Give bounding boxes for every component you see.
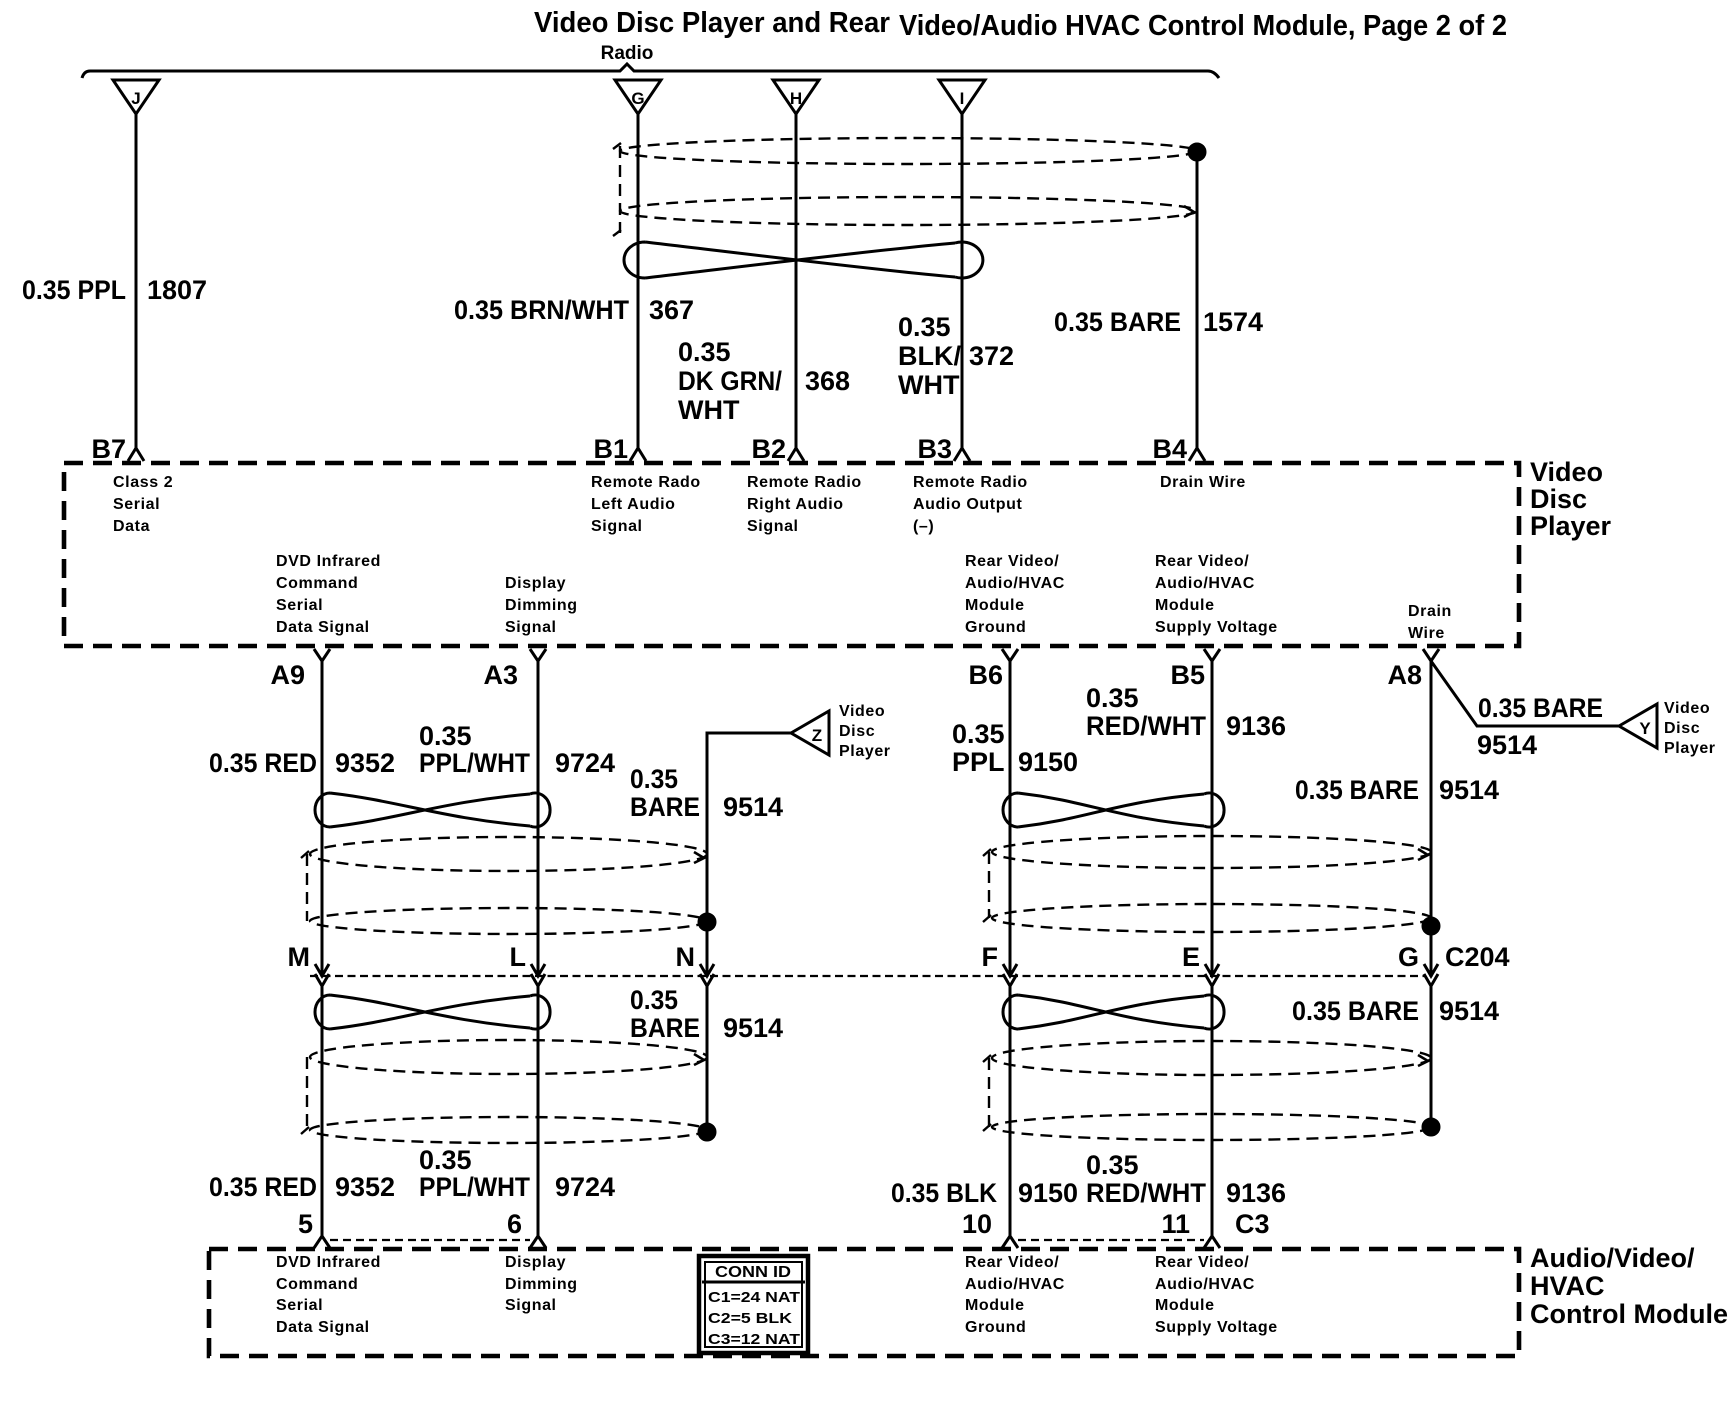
svg-text:0.35: 0.35 — [419, 721, 472, 751]
shield around 10/11 pair lower — [983, 1041, 1431, 1140]
Audio/Video/HVAC Control Module box — [209, 1249, 1519, 1356]
connector triangle Z (Video Disc Player) — [791, 711, 829, 755]
label wire 367 (0.35 BRN/WHT) — [454, 295, 694, 325]
svg-text:0.35: 0.35 — [1086, 683, 1139, 713]
label wire 9514 below C204 left (0.35 BARE) — [630, 985, 783, 1043]
svg-text:Right Audio: Right Audio — [747, 496, 844, 513]
pin function: Rear Video/Audio/HVAC Module Ground — [965, 553, 1065, 636]
svg-text:Radio: Radio — [601, 43, 654, 64]
svg-text:H: H — [790, 89, 802, 108]
svg-text:0.35 BARE: 0.35 BARE — [1295, 775, 1419, 805]
svg-text:0.35: 0.35 — [678, 337, 731, 367]
svg-text:BARE: BARE — [630, 792, 700, 822]
svg-text:Audio/HVAC: Audio/HVAC — [1155, 575, 1255, 592]
svg-text:DK GRN/: DK GRN/ — [678, 366, 782, 396]
svg-text:Command: Command — [276, 1276, 358, 1293]
svg-text:Signal: Signal — [591, 518, 643, 535]
C204 inline connector dashed line — [310, 975, 1425, 977]
svg-text:0.35 PPL: 0.35 PPL — [22, 275, 126, 305]
svg-text:B1: B1 — [593, 434, 628, 464]
svg-text:RED/WHT: RED/WHT — [1086, 1178, 1206, 1208]
svg-text:5: 5 — [298, 1209, 313, 1239]
svg-text:Supply Voltage: Supply Voltage — [1155, 1319, 1278, 1336]
pin B1 — [593, 434, 646, 464]
label wire 9352 (0.35 RED) — [209, 748, 395, 778]
pin function: Rear Video/Audio/HVAC Module Ground (module) — [965, 1254, 1065, 1336]
svg-text:Display: Display — [505, 1254, 566, 1271]
shield continuation between pins 10 and 11 — [1018, 1239, 1204, 1241]
twisted pair symbol 10/11 lower — [1003, 995, 1224, 1029]
junction dot shield to A8 drain — [1423, 918, 1439, 934]
svg-text:HVAC: HVAC — [1530, 1271, 1605, 1301]
svg-text:Audio/HVAC: Audio/HVAC — [965, 575, 1065, 592]
svg-text:B3: B3 — [917, 434, 952, 464]
label wire 9514 at Y (0.35 BARE) — [1477, 693, 1603, 760]
svg-text:B7: B7 — [91, 434, 126, 464]
Y triangle label Video Disc Player — [1664, 700, 1716, 757]
wire E-11 — [1211, 986, 1214, 1237]
svg-text:9150: 9150 — [1018, 747, 1078, 777]
wire drain B4 — [1196, 152, 1199, 448]
svg-text:372: 372 — [969, 341, 1014, 371]
label wire 368 (0.35 DK GRN/WHT) — [678, 337, 850, 425]
pin function: Rear Video/Audio/HVAC Module Supply Voltage — [1155, 553, 1278, 636]
wire G lower — [1430, 986, 1433, 1121]
shield continuation between pins 5 and 6 — [330, 1239, 530, 1241]
Video Disc Player module box — [64, 463, 1519, 646]
pin B2 — [751, 434, 804, 464]
svg-text:Dimming: Dimming — [505, 1276, 578, 1293]
shield around A9/A3 pair upper — [301, 837, 707, 934]
label wire 9136 lower (0.35 RED/WHT) — [1086, 1150, 1286, 1208]
pin function: Display Dimming Signal — [505, 575, 578, 636]
svg-text:0.35 BLK: 0.35 BLK — [891, 1178, 997, 1208]
svg-text:DVD Infrared: DVD Infrared — [276, 553, 381, 570]
pin function: Display Dimming Signal (module) — [505, 1254, 578, 1314]
junction dot shield to N wire lower — [699, 1124, 715, 1140]
svg-text:Video Disc Player and Rear: Video Disc Player and Rear — [534, 7, 890, 39]
svg-text:11: 11 — [1161, 1209, 1190, 1239]
label wire 9514 at A8 (0.35 BARE) — [1295, 775, 1499, 805]
pin function: Rear Video/Audio/HVAC Module Supply Voltage (module) — [1155, 1254, 1278, 1336]
svg-text:0.35: 0.35 — [952, 719, 1005, 749]
wire F-10 — [1009, 986, 1012, 1237]
svg-text:Video: Video — [1664, 700, 1710, 717]
label wire 9150 lower (0.35 BLK) — [891, 1178, 1078, 1208]
svg-text:C3=12 NAT: C3=12 NAT — [708, 1331, 800, 1348]
wire A3-L — [537, 661, 540, 977]
connector triangle G (to Radio) — [615, 80, 661, 114]
svg-text:Left Audio: Left Audio — [591, 496, 676, 513]
svg-text:C2=5 BLK: C2=5 BLK — [708, 1310, 792, 1327]
connector triangle H (to Radio) — [773, 80, 819, 114]
wire A8 to Y triangle — [1431, 661, 1619, 726]
shield around B6/B5 pair upper — [983, 836, 1431, 932]
pin function: DVD Infrared Command Serial Data Signal — [276, 553, 381, 636]
svg-text:1574: 1574 — [1203, 307, 1263, 337]
twisted pair symbol 5/6 lower — [315, 995, 550, 1029]
svg-text:6: 6 — [507, 1209, 522, 1239]
svg-text:Data Signal: Data Signal — [276, 1319, 370, 1336]
label wire 9724 (0.35 PPL/WHT) — [419, 721, 615, 778]
wire L-6 — [537, 986, 540, 1237]
svg-text:WHT: WHT — [678, 395, 740, 425]
svg-text:Wire: Wire — [1408, 625, 1445, 642]
svg-text:9136: 9136 — [1226, 711, 1286, 741]
svg-text:Data: Data — [113, 518, 150, 535]
wire Z triangle to N — [707, 733, 791, 977]
pin function: Drain Wire — [1160, 474, 1246, 491]
twisted pair symbol B6/B5 upper — [1003, 793, 1224, 827]
pin function: Remote Radio Right Audio Signal — [747, 474, 862, 535]
svg-text:B5: B5 — [1170, 660, 1205, 690]
label wire 9150 (0.35 PPL) — [952, 719, 1078, 777]
svg-text:0.35 BARE: 0.35 BARE — [1478, 693, 1603, 723]
svg-text:B6: B6 — [968, 660, 1003, 690]
svg-text:Disc: Disc — [1530, 484, 1587, 514]
svg-text:0.35: 0.35 — [898, 312, 951, 342]
svg-text:9514: 9514 — [1439, 996, 1499, 1026]
svg-text:Y: Y — [1639, 719, 1651, 738]
label wire 9514 at N (0.35 BARE) — [630, 764, 783, 822]
svg-text:DVD Infrared: DVD Infrared — [276, 1254, 381, 1271]
svg-text:Rear Video/: Rear Video/ — [1155, 553, 1249, 570]
svg-text:9352: 9352 — [335, 1172, 395, 1202]
wire J-B7 — [135, 114, 138, 448]
svg-text:Remote Radio: Remote Radio — [913, 474, 1028, 491]
label wire 9136 (0.35 RED/WHT) — [1086, 683, 1286, 741]
svg-text:M: M — [288, 942, 311, 972]
svg-text:C3: C3 — [1235, 1209, 1270, 1239]
svg-text:Video: Video — [1530, 457, 1603, 487]
wire N lower — [706, 986, 709, 1126]
svg-text:0.35 BRN/WHT: 0.35 BRN/WHT — [454, 295, 629, 325]
wire I-B3 — [961, 114, 964, 448]
svg-text:Video: Video — [839, 703, 885, 720]
svg-text:Rear Video/: Rear Video/ — [965, 1254, 1059, 1271]
svg-text:N: N — [676, 942, 696, 972]
svg-text:Data Signal: Data Signal — [276, 619, 370, 636]
label wire 9352 lower (0.35 RED) — [209, 1172, 395, 1202]
twisted pair symbol A9/A3 upper — [315, 793, 550, 827]
pin B7 — [91, 434, 144, 464]
pin B3 — [917, 434, 970, 464]
wire M-5 — [321, 986, 324, 1237]
pin A8 — [1387, 649, 1439, 690]
svg-text:C204: C204 — [1445, 942, 1510, 972]
pin function: DVD Infrared Command Serial Data Signal (module) — [276, 1254, 381, 1336]
svg-text:CONN ID: CONN ID — [715, 1264, 791, 1281]
Video Disc Player box label — [1530, 457, 1612, 541]
svg-text:9514: 9514 — [723, 1013, 783, 1043]
pin function: Class 2 Serial Data — [113, 474, 173, 535]
svg-text:Audio/Video/: Audio/Video/ — [1530, 1243, 1695, 1273]
junction dot shield to N wire — [699, 914, 715, 930]
svg-text:Module: Module — [965, 1297, 1025, 1314]
shield around 5/6 pair lower — [301, 1040, 707, 1143]
svg-text:BLK/: BLK/ — [898, 341, 961, 371]
svg-text:1807: 1807 — [147, 275, 207, 305]
label wire 9724 lower (0.35 PPL/WHT) — [419, 1145, 615, 1202]
svg-text:Display: Display — [505, 575, 566, 592]
svg-text:BARE: BARE — [630, 1013, 700, 1043]
svg-text:Rear Video/: Rear Video/ — [965, 553, 1059, 570]
pin B4 — [1152, 434, 1205, 464]
svg-text:9724: 9724 — [555, 1172, 615, 1202]
svg-text:9352: 9352 — [335, 748, 395, 778]
svg-text:Remote Radio: Remote Radio — [747, 474, 862, 491]
Z triangle label Video Disc Player — [839, 703, 891, 760]
svg-text:9514: 9514 — [1439, 775, 1499, 805]
svg-text:Ground: Ground — [965, 619, 1026, 636]
svg-text:RED/WHT: RED/WHT — [1086, 711, 1206, 741]
svg-text:Dimming: Dimming — [505, 597, 578, 614]
svg-text:0.35 BARE: 0.35 BARE — [1292, 996, 1419, 1026]
wire H-B2 — [795, 114, 798, 448]
svg-text:9724: 9724 — [555, 748, 615, 778]
svg-text:(–): (–) — [913, 518, 934, 535]
node F at C204 — [982, 942, 1018, 986]
pin function: Drain Wire (A8) — [1408, 603, 1452, 642]
svg-text:Audio/HVAC: Audio/HVAC — [965, 1276, 1065, 1293]
svg-text:Serial: Serial — [276, 597, 323, 614]
svg-text:Player: Player — [839, 743, 891, 760]
pin A3 — [483, 649, 546, 690]
svg-text:C1=24 NAT: C1=24 NAT — [708, 1289, 800, 1306]
svg-text:368: 368 — [805, 366, 850, 396]
svg-text:Signal: Signal — [747, 518, 799, 535]
pin 11 — [1161, 1209, 1220, 1248]
svg-text:Signal: Signal — [505, 619, 557, 636]
svg-text:L: L — [510, 942, 527, 972]
svg-text:367: 367 — [649, 295, 694, 325]
svg-text:9150: 9150 — [1018, 1178, 1078, 1208]
connector triangle Y (Video Disc Player) — [1619, 704, 1657, 748]
svg-text:10: 10 — [962, 1209, 992, 1239]
pin B6 — [968, 649, 1018, 690]
connector triangle J (to Radio) — [113, 80, 159, 114]
pin 5 — [298, 1209, 330, 1248]
label wire 9514 below C204 right (0.35 BARE) — [1292, 996, 1499, 1026]
svg-text:Control Module: Control Module — [1530, 1299, 1728, 1329]
svg-text:Disc: Disc — [839, 723, 875, 740]
svg-text:A9: A9 — [270, 660, 305, 690]
wire A8 drain vertical — [1430, 661, 1433, 977]
node E at C204 — [1182, 942, 1219, 986]
svg-text:Rear Video/: Rear Video/ — [1155, 1254, 1249, 1271]
svg-text:0.35: 0.35 — [419, 1145, 472, 1175]
svg-text:Video/Audio HVAC Control Modul: Video/Audio HVAC Control Module, Page 2 … — [899, 10, 1507, 42]
svg-text:Module: Module — [965, 597, 1025, 614]
svg-text:Module: Module — [1155, 1297, 1215, 1314]
pin A9 — [270, 649, 330, 690]
pin B5 — [1170, 649, 1220, 690]
svg-text:Remote Rado: Remote Rado — [591, 474, 701, 491]
Audio/Video/HVAC Control Module box label — [1530, 1243, 1728, 1329]
wire B6-F — [1009, 661, 1012, 977]
title — [534, 7, 1507, 42]
svg-text:9136: 9136 — [1226, 1178, 1286, 1208]
pin 6 — [507, 1209, 546, 1248]
svg-text:A3: A3 — [483, 660, 518, 690]
svg-text:B2: B2 — [751, 434, 786, 464]
connector triangle I (to Radio) — [939, 80, 985, 114]
svg-text:Command: Command — [276, 575, 358, 592]
svg-text:Module: Module — [1155, 597, 1215, 614]
pin function: Remote Radio Audio Output (-) — [913, 474, 1028, 535]
svg-text:Audio Output: Audio Output — [913, 496, 1022, 513]
svg-text:B4: B4 — [1152, 434, 1187, 464]
svg-text:Player: Player — [1664, 740, 1716, 757]
svg-text:0.35 RED: 0.35 RED — [209, 1172, 317, 1202]
svg-text:0.35: 0.35 — [1086, 1150, 1139, 1180]
svg-text:Z: Z — [812, 726, 822, 745]
svg-text:0.35: 0.35 — [630, 985, 678, 1015]
svg-text:9514: 9514 — [723, 792, 783, 822]
svg-text:Serial: Serial — [113, 496, 160, 513]
svg-text:I: I — [960, 89, 965, 108]
svg-text:0.35: 0.35 — [630, 764, 678, 794]
CONN ID table — [699, 1256, 808, 1353]
label wire 372 (0.35 BLK/WHT) — [898, 312, 1014, 400]
node G at C204 — [1398, 942, 1438, 986]
svg-text:0.35 RED: 0.35 RED — [209, 748, 317, 778]
label wire 1807 (0.35 PPL) — [22, 275, 207, 305]
junction dot shield to G drain lower — [1423, 1119, 1439, 1135]
node N at C204 — [676, 942, 715, 986]
svg-text:WHT: WHT — [898, 370, 960, 400]
Radio bus bracket — [82, 64, 1219, 78]
svg-text:A8: A8 — [1387, 660, 1422, 690]
svg-text:J: J — [131, 89, 140, 108]
label wire 1574 (0.35 BARE) — [1054, 307, 1263, 337]
svg-text:G: G — [1398, 942, 1419, 972]
svg-text:Serial: Serial — [276, 1297, 323, 1314]
pin 10 — [962, 1209, 1018, 1248]
wire G-B1 — [637, 114, 640, 448]
twisted pair symbol (radio left/right audio) — [624, 242, 983, 278]
junction dot: shield to drain wire B4 — [1189, 144, 1205, 160]
node M at C204 — [288, 942, 330, 986]
node L at C204 — [510, 942, 546, 986]
svg-text:Signal: Signal — [505, 1297, 557, 1314]
wire A9-M — [321, 661, 324, 977]
svg-text:PPL: PPL — [952, 747, 1005, 777]
svg-text:Disc: Disc — [1664, 720, 1700, 737]
svg-text:PPL/WHT: PPL/WHT — [419, 748, 530, 778]
svg-text:G: G — [631, 89, 644, 108]
svg-text:E: E — [1182, 942, 1200, 972]
svg-text:Audio/HVAC: Audio/HVAC — [1155, 1276, 1255, 1293]
svg-text:Drain: Drain — [1408, 603, 1452, 620]
svg-text:Class 2: Class 2 — [113, 474, 173, 491]
svg-text:Supply Voltage: Supply Voltage — [1155, 619, 1278, 636]
pin function: Remote Rado Left Audio Signal — [591, 474, 701, 535]
svg-text:0.35 BARE: 0.35 BARE — [1054, 307, 1181, 337]
svg-text:F: F — [982, 942, 999, 972]
shield around radio audio pair — [613, 138, 1197, 236]
wire B5-E — [1211, 661, 1214, 977]
svg-text:Drain Wire: Drain Wire — [1160, 474, 1246, 491]
svg-text:Player: Player — [1530, 511, 1612, 541]
svg-text:9514: 9514 — [1477, 730, 1537, 760]
svg-text:Ground: Ground — [965, 1319, 1026, 1336]
svg-text:PPL/WHT: PPL/WHT — [419, 1172, 530, 1202]
